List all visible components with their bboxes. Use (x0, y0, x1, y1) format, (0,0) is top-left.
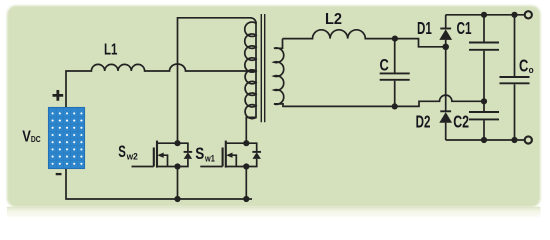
svg-text:L1: L1 (104, 42, 118, 59)
svg-text:S: S (118, 142, 126, 161)
svg-text:D1: D1 (417, 18, 432, 38)
svg-text:D2: D2 (416, 112, 431, 132)
svg-text:w1: w1 (204, 154, 215, 165)
svg-text:C2: C2 (453, 112, 469, 132)
svg-text:C: C (380, 55, 389, 74)
svg-text:L2: L2 (325, 11, 342, 28)
svg-text:o: o (529, 65, 534, 75)
svg-text:C: C (519, 56, 528, 76)
svg-text:w2: w2 (126, 152, 138, 163)
svg-text:DC: DC (31, 135, 41, 144)
svg-text:S: S (195, 144, 204, 163)
svg-text:C1: C1 (457, 18, 472, 38)
